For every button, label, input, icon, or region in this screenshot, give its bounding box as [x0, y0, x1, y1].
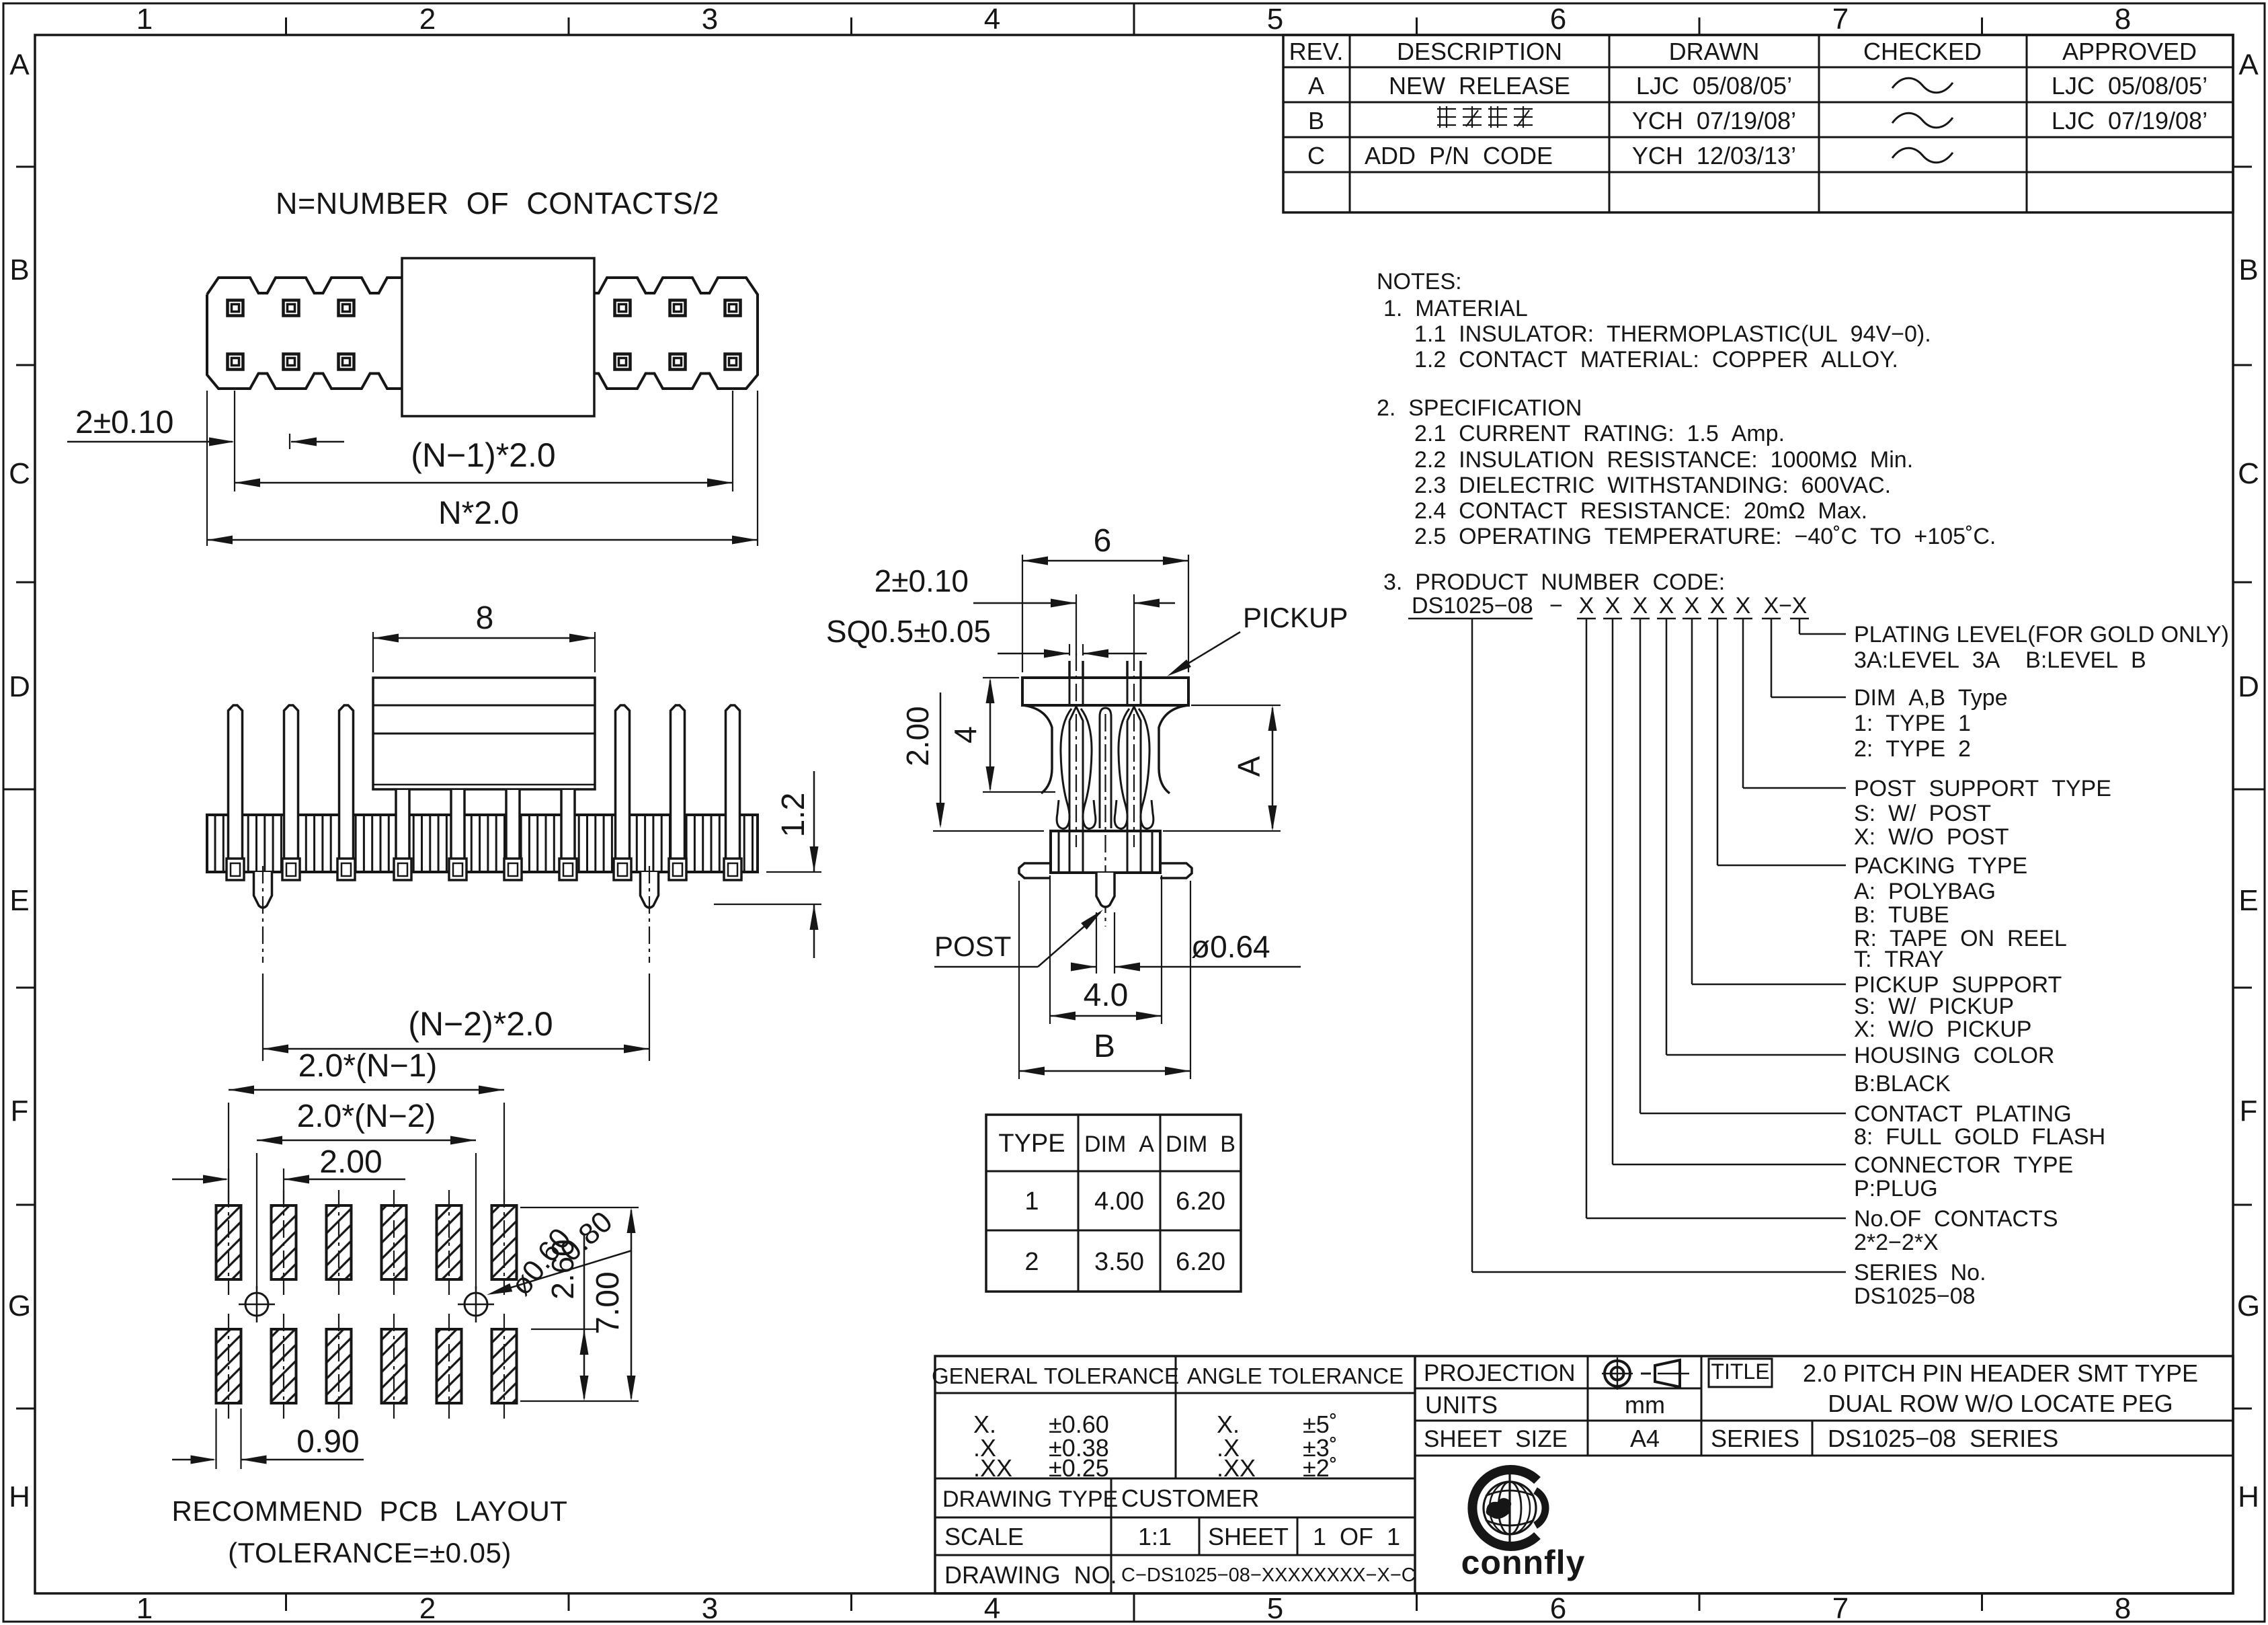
svg-text:S: W/ PICKUP: S: W/ PICKUP: [1854, 994, 2014, 1019]
svg-text:4.00: 4.00: [1094, 1187, 1144, 1216]
svg-text:2. SPECIFICATION: 2. SPECIFICATION: [1377, 395, 1582, 421]
svg-text:1.2 CONTACT MATERIAL: COPPE: 1.2 CONTACT MATERIAL: COPPER ALLOY.: [1414, 347, 1898, 372]
svg-text:A: A: [9, 48, 30, 81]
section view: dimension 6 (cap width): [1022, 555, 1023, 672]
svg-text:POST SUPPORT TYPE: POST SUPPORT TYPE: [1854, 776, 2111, 801]
svg-text:ANGLE TOLERANCE: ANGLE TOLERANCE: [1187, 1363, 1404, 1388]
section view: post: [1096, 873, 1115, 907]
svg-text:6.20: 6.20: [1176, 1248, 1225, 1276]
svg-text:1.2: 1.2: [776, 793, 811, 838]
svg-text:7.00: 7.00: [590, 1271, 626, 1334]
svg-text:(N−1)*2.0: (N−1)*2.0: [411, 436, 555, 474]
pcb layout: dimension 0.90: [215, 1409, 216, 1469]
svg-text:1:1: 1:1: [1138, 1523, 1172, 1550]
svg-text:A: A: [2238, 48, 2259, 81]
svg-text:SHEET SIZE: SHEET SIZE: [1424, 1426, 1568, 1452]
svg-text:2.3 DIELECTRIC WITHSTANDING:: 2.3 DIELECTRIC WITHSTANDING: 600VAC.: [1414, 473, 1891, 498]
svg-text:SCALE: SCALE: [944, 1523, 1024, 1550]
pcb layout: dimension 2.60: [531, 1329, 598, 1330]
section view: dimension A: [1191, 705, 1281, 706]
svg-text:2: 2: [419, 3, 436, 36]
svg-text:X: X: [1633, 593, 1648, 619]
svg-text:±0.25: ±0.25: [1049, 1454, 1109, 1482]
section view: dimension B (wing span): [1018, 881, 1020, 1079]
title block outline: [935, 1356, 2233, 1593]
projection symbol (first angle): [1605, 1361, 1630, 1386]
section view: SMT wing leads: [1019, 863, 1051, 878]
svg-text:2.00: 2.00: [900, 706, 935, 766]
dimension table TYPE/DIM A/DIM B: [986, 1115, 1241, 1292]
section view: centerline of post: [1104, 714, 1106, 926]
svg-text:connfly: connfly: [1461, 1544, 1586, 1581]
svg-text:X: X: [1605, 593, 1621, 619]
svg-text:X: X: [1764, 593, 1779, 619]
front view: break box: [373, 678, 595, 789]
svg-text:A: A: [1308, 72, 1324, 100]
section view: pickup cap: [1022, 678, 1188, 705]
pcb layout: dimension 7.00: [520, 1207, 639, 1208]
svg-text:PLATING LEVEL(FOR GOLD ONLY): PLATING LEVEL(FOR GOLD ONLY): [1854, 622, 2229, 647]
svg-text:6: 6: [1094, 523, 1112, 559]
svg-text:2.0 PITCH PIN HEADER SMT TYPE: 2.0 PITCH PIN HEADER SMT TYPE: [1803, 1359, 2198, 1387]
svg-text:REV.: REV.: [1289, 38, 1344, 65]
svg-text:TITLE: TITLE: [1711, 1359, 1769, 1384]
svg-text:CONNECTOR TYPE: CONNECTOR TYPE: [1854, 1152, 2073, 1178]
svg-text:±2˚: ±2˚: [1303, 1454, 1338, 1482]
svg-text:2*2−2*X: 2*2−2*X: [1854, 1230, 1939, 1255]
top view: dual-row pin header, left section body outline: [207, 278, 402, 389]
svg-text:2±0.10: 2±0.10: [875, 563, 969, 598]
svg-text:GENERAL TOLERANCE: GENERAL TOLERANCE: [932, 1363, 1179, 1388]
svg-text:D: D: [2238, 670, 2259, 703]
svg-text:.XX: .XX: [1217, 1454, 1256, 1482]
top view: dimension 2±0.10 (pin pitch): [234, 391, 235, 491]
svg-text:LJC 05/08/05’: LJC 05/08/05’: [2052, 72, 2208, 100]
svg-text:1: 1: [136, 3, 153, 36]
svg-text:4: 4: [984, 3, 1000, 36]
top view: break box: [402, 258, 594, 416]
svg-text:8: 8: [2115, 3, 2131, 36]
drawing type row: [935, 1517, 1415, 1519]
svg-text:No.OF CONTACTS: No.OF CONTACTS: [1854, 1206, 2058, 1232]
svg-text:YCH 12/03/13’: YCH 12/03/13’: [1632, 142, 1796, 169]
svg-text:DS1025−08: DS1025−08: [1854, 1283, 1976, 1309]
svg-text:1.1 INSULATOR: THERMOPLASTIC: 1.1 INSULATOR: THERMOPLASTIC(UL 94V−0).: [1414, 321, 1931, 347]
svg-text:2: TYPE 2: 2: TYPE 2: [1854, 736, 1971, 762]
svg-text:CHECKED: CHECKED: [1863, 38, 1982, 65]
svg-text:6: 6: [1550, 3, 1566, 36]
section view: center tongue: [1100, 708, 1111, 828]
svg-text:C−DS1025−08−XXXXXXXX−X−C: C−DS1025−08−XXXXXXXX−X−C: [1121, 1564, 1416, 1586]
title box: [1709, 1359, 1772, 1387]
front view: dimension 1.2 (post length): [766, 871, 821, 873]
svg-text:4: 4: [984, 1592, 1000, 1625]
svg-text:8: 8: [476, 600, 494, 636]
svg-text:0.90: 0.90: [296, 1424, 359, 1460]
svg-text:X: X: [1710, 593, 1726, 619]
svg-text:ø0.64: ø0.64: [1191, 929, 1270, 964]
pcb layout: dimension 2.0*(N-2): [256, 1153, 257, 1289]
svg-text:B: B: [1308, 107, 1324, 134]
svg-text:POST: POST: [934, 930, 1011, 962]
svg-text:1: TYPE 1: 1: TYPE 1: [1854, 711, 1971, 736]
svg-text:G: G: [8, 1290, 31, 1322]
svg-text:2: 2: [419, 1592, 436, 1625]
svg-text:DESCRIPTION: DESCRIPTION: [1397, 38, 1562, 65]
svg-text:A4: A4: [1630, 1425, 1660, 1452]
pcb layout: post holes (circle-cross): [245, 1293, 268, 1316]
svg-text:F: F: [11, 1095, 29, 1127]
svg-text:4: 4: [948, 726, 983, 744]
svg-text:B: B: [9, 253, 29, 286]
section view: dimension 2.00: [940, 692, 942, 825]
svg-text:3: 3: [702, 3, 718, 36]
top view: dimension (N-1)*2.0: [732, 391, 733, 491]
svg-text:B:BLACK: B:BLACK: [1854, 1071, 1951, 1097]
svg-text:X: X: [1685, 593, 1700, 619]
pcb layout: bottom row pads: [216, 1329, 241, 1403]
svg-text:CONTACT PLATING: CONTACT PLATING: [1854, 1101, 2072, 1127]
pcb layout: dimension 2.00: [228, 1168, 229, 1202]
svg-text:2.5 OPERATING TEMPERATURE:: 2.5 OPERATING TEMPERATURE: −40˚C TO +105…: [1414, 524, 1996, 549]
svg-text:S: W/ POST: S: W/ POST: [1854, 801, 1991, 826]
svg-text:E: E: [9, 884, 29, 917]
svg-text:DRAWING TYPE: DRAWING TYPE: [942, 1487, 1118, 1512]
svg-text:X: X: [1659, 593, 1674, 619]
svg-text:DRAWN: DRAWN: [1669, 38, 1760, 65]
section view: housing funnel profile right: [1159, 705, 1188, 793]
svg-text:2.0*(N−2): 2.0*(N−2): [297, 1099, 436, 1134]
svg-text:C: C: [1307, 142, 1325, 169]
svg-text:4.0: 4.0: [1084, 978, 1129, 1013]
svg-text:H: H: [9, 1480, 30, 1513]
svg-text:7: 7: [1832, 3, 1849, 36]
svg-text:1: 1: [1024, 1187, 1039, 1216]
svg-text:H: H: [2238, 1480, 2259, 1513]
svg-text:YCH 07/19/08’: YCH 07/19/08’: [1632, 107, 1796, 134]
svg-text:F: F: [2240, 1095, 2258, 1127]
pcb layout: top row pads: [216, 1205, 241, 1279]
svg-text:SQ0.5±0.05: SQ0.5±0.05: [826, 614, 991, 649]
front view: dimension (N-2)*2.0 (post spacing): [263, 1048, 649, 1050]
svg-text:DIM A: DIM A: [1084, 1132, 1154, 1157]
svg-text:2.2 INSULATION RESISTANCE:: 2.2 INSULATION RESISTANCE: 1000MΩ Min.: [1414, 447, 1913, 473]
svg-text:3.50: 3.50: [1094, 1248, 1144, 1276]
svg-text:2.0*(N−1): 2.0*(N−1): [298, 1048, 438, 1084]
connfly logo bird: [1487, 1499, 1511, 1518]
svg-text:UNITS: UNITS: [1425, 1391, 1498, 1419]
svg-text:B: TUBE: B: TUBE: [1854, 902, 1949, 928]
svg-text:P:PLUG: P:PLUG: [1854, 1176, 1938, 1201]
svg-text:2: 2: [1024, 1248, 1039, 1276]
svg-text:3. PRODUCT NUMBER CODE:: 3. PRODUCT NUMBER CODE:: [1383, 569, 1725, 595]
svg-text:SHEET: SHEET: [1208, 1523, 1289, 1550]
section view: housing body block: [1051, 831, 1160, 873]
section view: dimension 4.0 (body width): [1049, 875, 1051, 1024]
svg-text:LJC 07/19/08’: LJC 07/19/08’: [2052, 107, 2208, 134]
front view: two locating posts: [254, 872, 272, 908]
svg-text:RECOMMEND PCB LAYOUT: RECOMMEND PCB LAYOUT: [172, 1495, 568, 1527]
svg-text:7: 7: [1832, 1592, 1849, 1625]
tolerance section: [1175, 1356, 1177, 1478]
section view: spring contacts: [1068, 661, 1071, 678]
svg-text:SERIES: SERIES: [1711, 1425, 1799, 1452]
svg-text:NEW RELEASE: NEW RELEASE: [1389, 72, 1570, 100]
top view: dimension N*2.0 (overall): [206, 391, 208, 546]
svg-text:B: B: [2238, 253, 2258, 286]
connfly logo: [1472, 1470, 1537, 1546]
svg-text:−: −: [1549, 593, 1563, 619]
svg-text:3: 3: [702, 1592, 718, 1625]
svg-text:3A:LEVEL 3A B:LEVEL B: 3A:LEVEL 3A B:LEVEL B: [1854, 647, 2146, 673]
svg-text:2±0.10: 2±0.10: [75, 405, 173, 440]
svg-text:X: W/O POST: X: W/O POST: [1854, 824, 2009, 850]
front view: base rib lines: [214, 815, 216, 872]
svg-text:G: G: [2237, 1290, 2260, 1322]
scale / sheet row: [935, 1554, 1415, 1556]
svg-text:2.00: 2.00: [319, 1144, 382, 1180]
svg-text:DUAL ROW W/O LOCATE PEG: DUAL ROW W/O LOCATE PEG: [1828, 1390, 2173, 1417]
svg-text:NOTES:: NOTES:: [1377, 269, 1462, 294]
svg-text:A: POLYBAG: A: POLYBAG: [1854, 879, 1996, 904]
svg-text:C: C: [9, 457, 30, 490]
svg-text:1. MATERIAL: 1. MATERIAL: [1383, 296, 1528, 321]
projection / units / sheet size rows: [1415, 1388, 1701, 1390]
front view: four pin stubs under break box: [396, 790, 409, 860]
svg-text:(TOLERANCE=±0.05): (TOLERANCE=±0.05): [228, 1537, 512, 1569]
front view: ten SMT pad contacts: [227, 859, 244, 880]
section view: dimension ø0.64 (post dia): [1096, 912, 1097, 974]
section view: dimension 2±0.10 (contact pitch): [1076, 594, 1077, 656]
svg-text:PROJECTION: PROJECTION: [1424, 1360, 1576, 1386]
svg-text:6.20: 6.20: [1176, 1187, 1225, 1216]
svg-text:X: X: [1579, 593, 1594, 619]
svg-text:N*2.0: N*2.0: [438, 496, 519, 531]
revision table: [1283, 35, 2233, 212]
svg-text:2.1 CURRENT RATING: 1.5 Am: 2.1 CURRENT RATING: 1.5 Amp.: [1414, 421, 1785, 446]
svg-text:DIM A,B Type: DIM A,B Type: [1854, 685, 2008, 711]
section view: dimension SQ0.5±0.05 (pin size): [1069, 644, 1070, 656]
svg-text:DRAWING NO.: DRAWING NO.: [944, 1561, 1117, 1589]
svg-text:D: D: [9, 670, 30, 703]
svg-text:APPROVED: APPROVED: [2062, 38, 2197, 65]
front view: insulator base strip: [207, 815, 758, 872]
section view: dimension 4: [983, 677, 1019, 678]
top view: pin contacts (square pins, 2 rows): [228, 301, 243, 316]
front view: dimension 8 (break box width): [372, 632, 374, 672]
svg-text:N=NUMBER OF CONTACTS/2: N=NUMBER OF CONTACTS/2: [276, 186, 719, 221]
svg-text:A: A: [1231, 756, 1266, 777]
section view: housing funnel profile left: [1022, 705, 1052, 793]
svg-text:.XX: .XX: [973, 1454, 1012, 1482]
svg-text:PACKING TYPE: PACKING TYPE: [1854, 853, 2027, 879]
svg-text:T: TRAY: T: TRAY: [1854, 947, 1944, 972]
svg-text:B: B: [1094, 1029, 1115, 1064]
product code tree connector lines: [1799, 619, 1801, 634]
svg-text:E: E: [2238, 884, 2258, 917]
svg-text:1: 1: [136, 1592, 153, 1625]
svg-text:HOUSING COLOR: HOUSING COLOR: [1854, 1043, 2054, 1068]
svg-text:8: FULL GOLD FLASH: 8: FULL GOLD FLASH: [1854, 1124, 2105, 1150]
svg-text:X: W/O PICKUP: X: W/O PICKUP: [1854, 1017, 2031, 1042]
svg-text:1 OF 1: 1 OF 1: [1313, 1523, 1400, 1550]
pcb layout: dimension 2.0*(N-1): [228, 1103, 229, 1202]
svg-text:5: 5: [1267, 1592, 1283, 1625]
svg-text:DS1025−08: DS1025−08: [1412, 593, 1533, 619]
svg-text:CUSTOMER: CUSTOMER: [1121, 1484, 1259, 1512]
front view: six through pins: [229, 705, 243, 860]
svg-text:TYPE: TYPE: [998, 1129, 1065, 1158]
svg-text:C: C: [2238, 457, 2259, 490]
svg-text:ADD P/N CODE: ADD P/N CODE: [1365, 142, 1553, 169]
svg-text:(N−2)*2.0: (N−2)*2.0: [408, 1005, 553, 1043]
svg-text:2.4 CONTACT RESISTANCE: 20m: 2.4 CONTACT RESISTANCE: 20mΩ Max.: [1414, 498, 1867, 524]
svg-text:LJC 05/08/05’: LJC 05/08/05’: [1636, 72, 1792, 100]
svg-text:5: 5: [1267, 3, 1283, 36]
top view: right section body outline: [594, 278, 758, 389]
svg-text:8: 8: [2115, 1592, 2131, 1625]
svg-text:6: 6: [1550, 1592, 1566, 1625]
svg-text:X: X: [1792, 593, 1808, 619]
svg-text:mm: mm: [1625, 1391, 1665, 1419]
svg-text:PICKUP: PICKUP: [1243, 602, 1348, 633]
svg-text:X: X: [1736, 593, 1751, 619]
svg-text:−: −: [1779, 593, 1792, 619]
svg-text:DIM B: DIM B: [1166, 1132, 1236, 1157]
svg-text:DS1025−08 SERIES: DS1025−08 SERIES: [1828, 1425, 2058, 1452]
svg-text:SERIES No.: SERIES No.: [1854, 1260, 1986, 1285]
